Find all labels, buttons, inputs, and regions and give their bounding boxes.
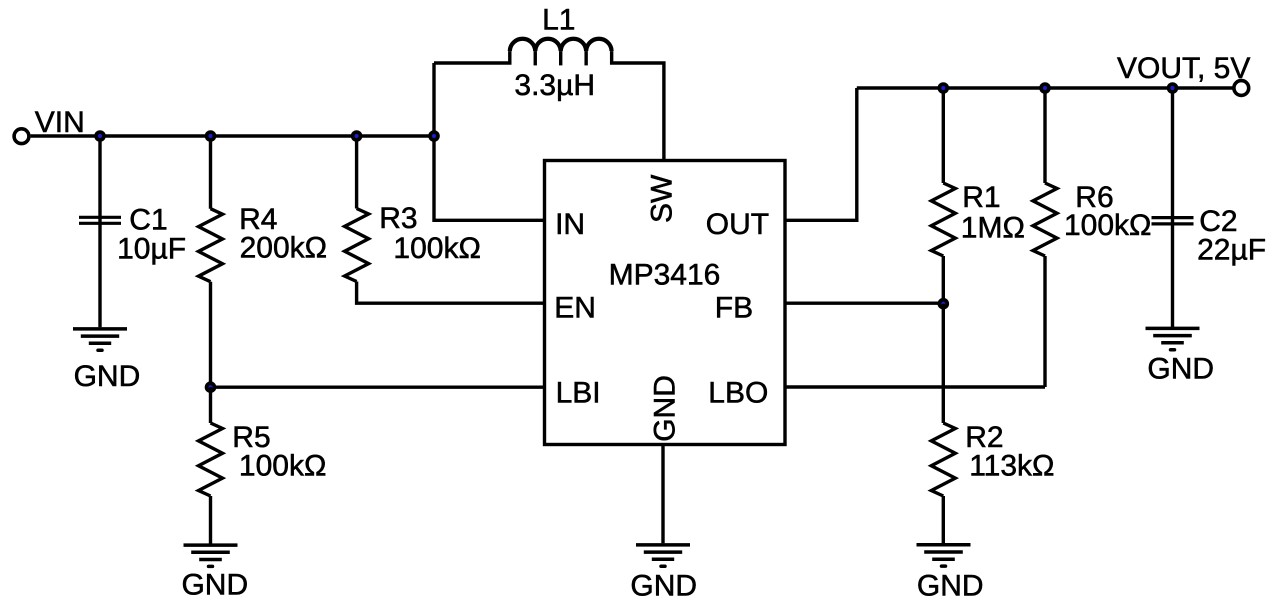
- pin LBI label: [556, 376, 601, 409]
- C1 value label: [117, 203, 186, 265]
- svg-text:EN: EN: [554, 292, 596, 325]
- pin EN label: [554, 292, 596, 325]
- junction dot VIN / L1: [428, 130, 440, 142]
- svg-text:100kΩ: 100kΩ: [239, 449, 326, 482]
- junction dot VOUT / C2: [1167, 82, 1179, 94]
- wire inductor right to SW pin: [612, 51, 664, 160]
- svg-text:LBI: LBI: [556, 376, 601, 409]
- pin GND label: [649, 375, 682, 442]
- svg-text:200kΩ: 200kΩ: [240, 232, 327, 265]
- resistor R4: [199, 136, 223, 387]
- resistor R6: [1033, 88, 1057, 387]
- junction dot VIN / R3: [351, 130, 363, 142]
- svg-text:R1: R1: [962, 181, 1000, 214]
- terminal VOUT: [1234, 81, 1249, 96]
- op-amp U1 MP3416 IC body: [545, 161, 786, 445]
- svg-text:GND: GND: [917, 570, 984, 603]
- R3 value label: [379, 202, 481, 265]
- R5 value label: [232, 421, 326, 482]
- svg-text:R3: R3: [379, 202, 417, 235]
- pin SW label: [646, 174, 679, 223]
- wire to inductor left: [434, 51, 510, 63]
- svg-text:IN: IN: [555, 208, 585, 241]
- ground under C1: [73, 329, 140, 393]
- svg-text:GND: GND: [74, 360, 141, 393]
- resistor R2: [931, 304, 955, 544]
- ground under R2: [917, 545, 984, 603]
- svg-text:L1: L1: [542, 4, 575, 37]
- junction dot VOUT / R1: [938, 82, 950, 94]
- L1 value label: [514, 69, 595, 102]
- pin IN label: [555, 208, 585, 241]
- inductor L1: [510, 39, 612, 66]
- svg-text:100kΩ: 100kΩ: [1064, 209, 1151, 242]
- node VOUT label: [1117, 52, 1250, 85]
- wire GND pin of IC: [661, 445, 664, 544]
- wire R3 to EN pin: [357, 282, 545, 304]
- svg-text:GND: GND: [630, 569, 697, 602]
- L1 reference label: [542, 4, 575, 37]
- junction dot FB / R1 / R2: [938, 298, 950, 310]
- ground under C2: [1146, 328, 1215, 385]
- junction dot VIN / R4: [205, 130, 217, 142]
- svg-text:10µF: 10µF: [117, 232, 186, 265]
- svg-text:MP3416: MP3416: [609, 258, 721, 291]
- resistor R5: [199, 387, 223, 543]
- svg-text:100kΩ: 100kΩ: [393, 232, 480, 265]
- capacitor C2: [1152, 88, 1194, 327]
- wire VIN rail to L1 and IN pin: [434, 63, 545, 220]
- svg-text:22µF: 22µF: [1197, 233, 1266, 266]
- wire LBO pin to R6: [785, 385, 1045, 388]
- svg-text:1MΩ: 1MΩ: [961, 211, 1025, 244]
- pin LBO label: [708, 376, 768, 409]
- wire VIN horizontal rail: [31, 134, 434, 137]
- terminal VIN: [14, 129, 29, 144]
- svg-text:3.3µH: 3.3µH: [514, 69, 595, 102]
- node VIN label: [35, 106, 85, 139]
- junction dot VOUT / R6: [1039, 82, 1051, 94]
- resistor R1: [931, 88, 955, 303]
- capacitor C1: [79, 136, 121, 327]
- pin OUT label: [706, 208, 769, 241]
- wire FB pin to divider: [785, 302, 943, 305]
- pin FB label: [715, 292, 753, 325]
- R2 value label: [965, 421, 1054, 483]
- svg-text:OUT: OUT: [706, 208, 769, 241]
- junction dot R4 / R5 / LBI: [205, 381, 217, 393]
- svg-text:SW: SW: [646, 174, 679, 223]
- R4 value label: [239, 203, 327, 265]
- wire LBI to R4/R5 junction: [211, 386, 545, 389]
- svg-text:GND: GND: [1147, 352, 1214, 385]
- svg-text:GND: GND: [181, 569, 248, 602]
- R1 value label: [961, 181, 1025, 245]
- ground under IC: [630, 545, 697, 602]
- wire OUT pin riser: [785, 88, 857, 220]
- svg-text:LBO: LBO: [708, 376, 768, 409]
- svg-text:VOUT, 5V: VOUT, 5V: [1117, 52, 1250, 85]
- svg-text:GND: GND: [649, 375, 682, 442]
- junction dot node VIN / C1: [94, 130, 106, 142]
- svg-text:FB: FB: [715, 292, 753, 325]
- ground under R5: [181, 545, 248, 602]
- svg-text:VIN: VIN: [35, 106, 85, 139]
- resistor R3: [345, 136, 369, 282]
- IC name MP3416: [609, 258, 721, 291]
- R6 value label: [1064, 181, 1151, 242]
- wire VOUT rail: [857, 86, 1234, 89]
- C2 value label: [1197, 205, 1266, 266]
- svg-text:113kΩ: 113kΩ: [969, 449, 1054, 482]
